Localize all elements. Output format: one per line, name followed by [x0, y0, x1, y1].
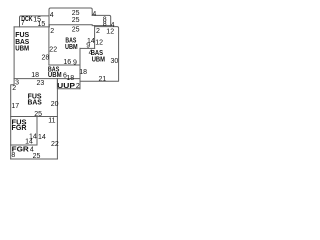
svg-text:12: 12: [106, 28, 114, 35]
svg-text:12: 12: [95, 39, 103, 46]
svg-text:25: 25: [72, 17, 80, 24]
svg-text:4: 4: [50, 12, 54, 19]
svg-text:30: 30: [111, 58, 119, 65]
svg-text:18: 18: [31, 72, 39, 79]
wire jog 2 at x49: [48, 25, 50, 27]
wire H and I right wall: [56, 79, 58, 159]
svg-text:25: 25: [33, 153, 41, 160]
svg-text:8: 8: [11, 152, 15, 159]
svg-text:22: 22: [49, 46, 57, 53]
svg-text:15: 15: [38, 21, 46, 28]
svg-text:14: 14: [38, 134, 46, 141]
wire H top-left jog: [11, 79, 14, 159]
section A main box left wall: [13, 27, 15, 79]
svg-text:UBM: UBM: [15, 43, 29, 52]
section D right box outline: [80, 27, 119, 82]
svg-text:8: 8: [103, 21, 107, 28]
deck DCK outline: [20, 16, 50, 27]
wire A and F bottom: [14, 78, 80, 80]
svg-text:2: 2: [50, 28, 54, 35]
svg-text:2: 2: [76, 83, 80, 90]
wire B bottom / E top: [49, 24, 92, 26]
svg-text:18: 18: [79, 69, 87, 76]
svg-text:7: 7: [21, 20, 25, 27]
section G UUP box outline: [57, 79, 80, 89]
svg-text:21: 21: [99, 76, 107, 83]
svg-text:28: 28: [42, 55, 50, 62]
svg-text:25: 25: [72, 26, 80, 33]
section C bottom wall: [92, 25, 111, 27]
wire A/E boundary: [48, 25, 50, 65]
svg-text:4: 4: [92, 11, 96, 18]
wire F/D/G boundary vertical: [79, 48, 81, 88]
wire E bottom / F top: [49, 64, 80, 66]
svg-text:BAS: BAS: [28, 97, 42, 106]
wire I sub-box bottom: [11, 144, 37, 146]
svg-text:UBM: UBM: [92, 55, 105, 64]
svg-text:17: 17: [11, 103, 19, 110]
svg-text:23: 23: [37, 80, 45, 87]
wire H bottom: [11, 116, 58, 118]
wire DCK bottom / A top: [14, 26, 49, 28]
svg-text:2: 2: [12, 85, 16, 92]
wire E/D zig horizontal: [80, 47, 95, 49]
wire E right wall: [94, 26, 96, 49]
svg-text:25: 25: [34, 111, 42, 118]
svg-text:11: 11: [48, 118, 55, 125]
svg-text:UUP: UUP: [57, 81, 75, 90]
svg-text:FGR: FGR: [12, 123, 28, 132]
wire I sub-box vertical: [36, 117, 38, 146]
wire I bottom: [11, 158, 58, 160]
section C small box outline: [92, 15, 111, 26]
svg-text:UBM: UBM: [48, 70, 62, 79]
section B top box outline: [49, 8, 92, 25]
svg-text:22: 22: [51, 141, 59, 148]
svg-text:9: 9: [73, 60, 77, 67]
svg-text:16: 16: [63, 59, 71, 66]
svg-text:20: 20: [51, 101, 59, 108]
svg-text:2: 2: [96, 28, 100, 35]
svg-text:UBM: UBM: [65, 42, 78, 51]
